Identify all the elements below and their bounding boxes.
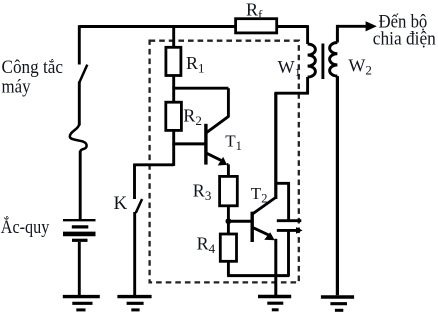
resistor Rf: [236, 19, 277, 33]
wire: battery to ground: [78, 242, 81, 295]
flexible-lead squiggle: [70, 124, 87, 153]
resistor R3: [220, 176, 238, 205]
wire: left branch upper vertical: [78, 25, 81, 64]
resistor R1: [166, 47, 181, 75]
wire: T2 base wire: [228, 220, 251, 223]
wire: T1 emitter to R3: [227, 164, 229, 176]
capacitor plates: [277, 221, 303, 234]
wire: squiggle to battery: [79, 151, 82, 219]
switch K blade: [136, 199, 142, 213]
winding W2: [330, 25, 338, 295]
transistor T2: [252, 197, 276, 242]
resistor R2: [166, 102, 182, 130]
wire: capacitor top branch: [275, 183, 289, 219]
ground (battery): [63, 297, 100, 310]
svg-text:K: K: [114, 193, 128, 214]
battery (Ac-quy): [63, 220, 96, 240]
ground (K): [117, 297, 151, 310]
output arrow to distributor: [337, 21, 376, 31]
svg-text:Ắc-quy: Ắc-quy: [1, 216, 50, 238]
ground (W2): [321, 297, 354, 310]
wire: R1 to R2: [172, 76, 175, 103]
wire: T2 collector vertical (to W1 return): [274, 93, 277, 199]
wire: collector branch vertical: [227, 88, 230, 117]
wire: T1 base wire: [172, 142, 204, 145]
svg-text:chia điện: chia điện: [373, 29, 436, 50]
wire: left branch below switch: [78, 82, 81, 126]
wire: K lower segment: [133, 212, 136, 295]
switch blade (cong tac may): [79, 65, 87, 83]
svg-text:máy: máy: [2, 76, 31, 97]
svg-text:Công tắc: Công tắc: [2, 57, 64, 78]
transformer core: [321, 44, 324, 80]
wire: R2 bottom to K junction: [172, 130, 175, 166]
ground (emitter): [258, 297, 291, 310]
wire: top rail from Rf to W1: [276, 25, 307, 28]
wire: capacitor bottom stem: [287, 230, 290, 276]
wire: node to R4: [227, 221, 230, 234]
wire: T2 emitter down through bottom rail to ground: [274, 239, 277, 295]
wire: bottom rail: [227, 274, 289, 277]
wire: R4 bottom stem: [227, 261, 230, 275]
transistor T1: [206, 116, 229, 165]
wire: K branch horizontal: [135, 163, 174, 166]
winding W1: [274, 25, 315, 93]
wire: collector branch horizontal: [172, 87, 228, 90]
node dot (R3-R4-T2 base): [226, 218, 232, 224]
wire: R3 to node: [227, 206, 230, 222]
dashed box (oscillator unit): [150, 41, 299, 283]
wire: K upper segment: [133, 164, 136, 200]
wire: R1 top stem: [172, 25, 175, 47]
wire: top supply rail left of Rf: [79, 25, 236, 28]
resistor R4: [220, 234, 236, 261]
